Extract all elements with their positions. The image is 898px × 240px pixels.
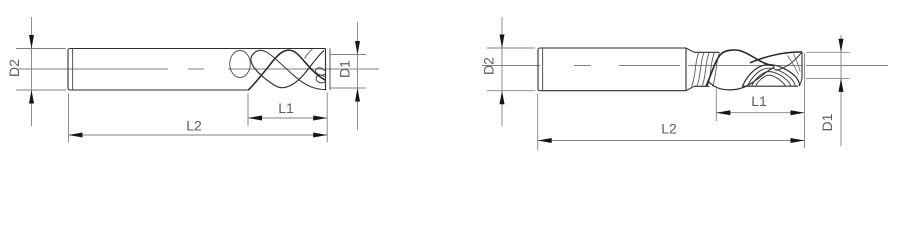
D2 arrow bottom tool1 <box>29 90 34 104</box>
L1 dimension line tool1 <box>248 117 327 119</box>
L1/L2 shared extension line right tool2 <box>804 53 806 148</box>
flute lens upper edge tool2 (thick) <box>706 50 775 86</box>
flute back whisker tool1 <box>305 49 313 59</box>
L1 arrow left tool1 <box>248 116 262 121</box>
shank chamfer line tool1 <box>72 49 74 91</box>
tip tooth curl upper tool1 <box>316 68 325 75</box>
L1 arrow left tool2 <box>716 110 730 115</box>
tip end face tool2 <box>801 52 803 78</box>
D2 extension lines tool1 <box>16 49 66 91</box>
svg-text:L2: L2 <box>186 117 202 133</box>
svg-text:D1: D1 <box>819 113 835 131</box>
L1 arrow right tool2 <box>791 110 805 115</box>
tip outer edge line tool1 <box>329 49 331 91</box>
L1 arrow right tool1 <box>313 116 327 121</box>
tip sliver line 2 tool2 <box>794 54 801 72</box>
L1 dimension line tool2 <box>716 112 804 114</box>
L1 extension line left tool1 <box>247 94 249 127</box>
svg-text:D2: D2 <box>481 57 497 75</box>
nested flute arc 4 tool2 <box>756 75 786 86</box>
shank tool2 <box>538 48 686 91</box>
D1 dimension line tool1 <box>357 22 359 130</box>
L2 dimension line tool2 <box>538 140 805 142</box>
L1 extension line left tool2 <box>715 89 717 122</box>
thin helix lines tool2 <box>692 52 720 86</box>
neck taper top tool2 <box>686 48 694 52</box>
neck end face tool2 <box>685 48 687 91</box>
tip end face tool1 <box>325 49 327 91</box>
D2 arrow top tool1 <box>29 35 34 49</box>
flute helix edge B tool1 <box>251 50 324 87</box>
D2 arrow top tool2 <box>500 35 505 49</box>
D2 extension lines tool2 <box>487 48 535 91</box>
D2 dimension line tool2 <box>501 17 503 126</box>
L2 arrow left tool2 <box>538 138 552 143</box>
D1 extension lines tool2 <box>806 52 850 78</box>
flute back edge C tool1 <box>260 50 327 89</box>
svg-text:D1: D1 <box>337 60 353 78</box>
tip sliver line 1 tool2 <box>788 56 799 75</box>
svg-text:L1: L1 <box>278 100 294 116</box>
D1 arrow bottom tool1 <box>355 88 360 102</box>
centerline tool2 <box>482 65 888 67</box>
D2 arrow bottom tool2 <box>500 91 505 105</box>
D1 arrow bottom tool2 <box>839 78 844 92</box>
nested flute arc 1 tool2 <box>743 65 800 87</box>
L2 arrow right tool2 <box>791 138 805 143</box>
L1/L2 shared extension line right tool1 <box>326 93 328 143</box>
D1 extension lines tool1 <box>331 55 367 89</box>
svg-text:L1: L1 <box>751 93 767 109</box>
flute start ellipse tool1 <box>230 51 251 78</box>
L2 arrow right tool1 <box>313 133 327 138</box>
D2 dimension line tool1 <box>31 17 33 126</box>
tip bottom corner tie tool2 <box>799 78 802 86</box>
D1 dimension line tool2 <box>840 35 842 146</box>
svg-text:L2: L2 <box>661 120 677 136</box>
neck taper bottom tool2 <box>686 86 694 90</box>
D1 arrow top tool1 <box>355 41 360 55</box>
flute helix edge A tool1 (thick S-curve) <box>249 50 326 90</box>
L2 arrow left tool1 <box>69 133 83 138</box>
centerline tool1 <box>17 68 379 70</box>
tip tooth curl lower tool1 <box>316 75 325 83</box>
nested flute arc 2 tool2 <box>748 68 796 86</box>
flute body bottom line tool2 <box>694 85 798 87</box>
svg-text:D2: D2 <box>6 59 22 77</box>
shank chamfer line tool2 <box>542 48 544 91</box>
L2 extension line left tool2 <box>537 94 539 151</box>
flute body top line tool2 <box>694 51 719 53</box>
L2 extension line left tool1 <box>68 94 70 143</box>
L2 dimension line tool1 <box>69 134 328 136</box>
shank tool1 <box>68 49 326 91</box>
tip fin upper edge tool2 <box>750 52 802 63</box>
nested flute arc 3 tool2 <box>752 72 791 87</box>
D1 arrow top tool2 <box>839 39 844 53</box>
flute lens lower edge tool2 <box>708 67 775 89</box>
tip fin lower edge tool2 <box>776 52 803 70</box>
